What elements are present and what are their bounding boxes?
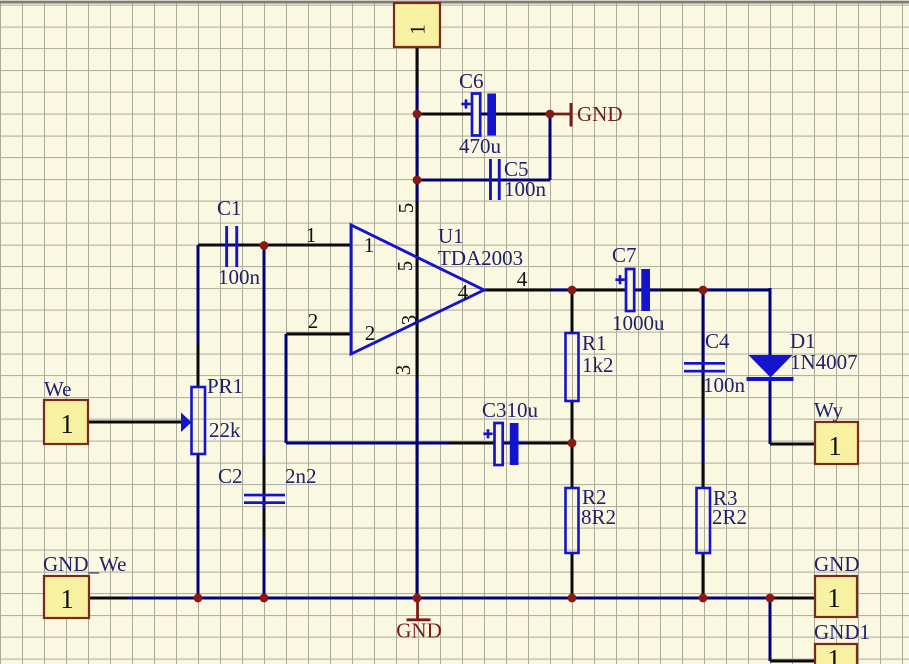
capacitor C3 (electrolytic 10u) xyxy=(495,423,503,465)
svg-text:2: 2 xyxy=(308,309,319,333)
potentiometer PR1 body xyxy=(192,387,206,454)
svg-text:4: 4 xyxy=(517,267,528,291)
svg-text:GND: GND xyxy=(577,102,623,126)
wire C5 gap and right xyxy=(487,179,550,182)
wire U1 pin2 xyxy=(286,333,351,336)
wire D1 cathode down to corner xyxy=(769,381,772,444)
wire C1 right pin to U1 pin1 xyxy=(239,244,351,247)
junction node C4 branch xyxy=(699,286,708,295)
wire R2 top pin xyxy=(571,443,574,488)
svg-text:2n2: 2n2 xyxy=(285,464,317,488)
wire U1 pin5/pin3 column xyxy=(416,202,419,378)
svg-text:C6: C6 xyxy=(459,69,484,93)
svg-text:5: 5 xyxy=(393,261,417,272)
svg-text:R1: R1 xyxy=(582,331,607,355)
power port GND (near C6) xyxy=(550,113,570,116)
svg-text:470u: 470u xyxy=(459,134,502,158)
svg-text:100n: 100n xyxy=(218,265,261,289)
op-amp U1 TDA2003 triangle xyxy=(351,225,484,354)
potentiometer PR1 wiper arrow xyxy=(181,413,192,433)
power port GND (bottom) xyxy=(416,598,419,619)
svg-text:C4: C4 xyxy=(705,329,730,353)
svg-text:C1: C1 xyxy=(217,196,242,220)
wire C5 left xyxy=(417,179,487,182)
svg-text:1: 1 xyxy=(827,583,841,613)
wire feedback to C3 xyxy=(286,442,449,445)
wire ground rail xyxy=(89,597,130,600)
wire C3 right pin to node xyxy=(526,442,572,445)
wire C3 right stub xyxy=(517,442,528,445)
svg-text:1: 1 xyxy=(60,584,74,614)
svg-text:1: 1 xyxy=(364,233,375,257)
svg-text:1k2: 1k2 xyxy=(582,353,614,377)
junction node rail R2 xyxy=(568,594,577,603)
svg-text:4: 4 xyxy=(458,280,469,304)
wire C6 left pin xyxy=(417,113,472,116)
wire C1 gap segment xyxy=(221,244,241,247)
svg-text:GND: GND xyxy=(814,552,860,576)
wire corner to Wy connector xyxy=(770,443,815,446)
wire C4 bottom to R3 top xyxy=(702,378,705,420)
connector GND1 (clipped) xyxy=(815,644,857,664)
svg-text:2R2: 2R2 xyxy=(712,505,747,529)
svg-text:GND_We: GND_We xyxy=(43,552,126,576)
connector GND (right) xyxy=(815,576,857,617)
capacitor C1 plates xyxy=(225,226,228,267)
svg-text:C7: C7 xyxy=(612,243,637,267)
svg-text:Wy: Wy xyxy=(814,398,844,422)
svg-text:8R2: 8R2 xyxy=(581,505,616,529)
wire R1 top pin xyxy=(571,290,574,333)
svg-text:3: 3 xyxy=(397,315,421,326)
capacitor C7 (electrolytic 1000u) xyxy=(626,269,634,311)
svg-text:C310u: C310u xyxy=(482,398,539,422)
svg-text:100n: 100n xyxy=(703,373,746,397)
svg-text:2: 2 xyxy=(365,321,376,345)
svg-text:GND: GND xyxy=(396,619,442,643)
wire C6 right pin xyxy=(496,113,550,116)
junction node V+/C6 xyxy=(413,110,422,119)
wire U1 pin4 output xyxy=(484,289,552,292)
wire V+ from connector P1 down xyxy=(416,47,419,90)
svg-text:22k: 22k xyxy=(209,418,241,442)
wire R3 bottom pin to rail xyxy=(702,553,705,598)
wire C6 gap segment xyxy=(470,113,490,116)
svg-text:1: 1 xyxy=(406,24,430,35)
wire PR1 bottom to rail xyxy=(197,454,200,598)
wire C5 tap segment xyxy=(416,114,419,180)
svg-text:PR1: PR1 xyxy=(207,374,243,398)
connector Wy xyxy=(815,422,858,464)
junction node rail PR1 xyxy=(194,594,203,603)
connector P1 (top power input) xyxy=(394,3,440,47)
resistor R2 xyxy=(566,488,579,553)
svg-text:TDA2003: TDA2003 xyxy=(438,246,523,270)
wire We to PR1 wiper xyxy=(88,421,181,424)
wire R2 bottom pin to rail xyxy=(571,553,574,598)
wire C2 branch down from node xyxy=(263,245,266,470)
capacitor C4 plates xyxy=(684,362,725,365)
diode D1 cathode bar xyxy=(747,377,794,381)
junction node rail GND conn xyxy=(766,594,775,603)
junction node output/R1 xyxy=(568,286,577,295)
svg-text:1: 1 xyxy=(828,431,842,461)
resistor R3 xyxy=(697,488,711,553)
svg-text:1: 1 xyxy=(827,644,841,664)
svg-text:1N4007: 1N4007 xyxy=(790,350,858,374)
wire output to C7 xyxy=(572,289,626,292)
wire C7 right pin xyxy=(660,289,703,292)
wire C2 bottom black xyxy=(263,510,266,540)
junction node C6/GND xyxy=(546,110,555,119)
diode D1 triangle xyxy=(749,355,793,378)
capacitor C6 (electrolytic 470u) xyxy=(472,94,480,136)
junction node C1/C2/pin1 xyxy=(260,241,269,250)
wire C4 gap segment xyxy=(702,350,705,380)
svg-text:We: We xyxy=(44,377,71,401)
junction node C5 tap xyxy=(413,176,422,185)
svg-text:1: 1 xyxy=(306,223,317,247)
junction node rail GND xyxy=(413,594,422,603)
svg-text:GND1: GND1 xyxy=(814,620,870,644)
connector We xyxy=(44,400,88,444)
junction node R1/R2/C3 xyxy=(568,439,577,448)
capacitor C5 plates xyxy=(489,159,492,200)
svg-text:C2: C2 xyxy=(218,464,243,488)
wire C1 left pin to corner xyxy=(198,244,223,247)
capacitor C2 plates xyxy=(244,494,285,497)
svg-text:1000u: 1000u xyxy=(612,311,665,335)
wire C7 right stub xyxy=(648,289,662,292)
wire C2 gap segment xyxy=(263,468,266,512)
svg-text:1: 1 xyxy=(60,409,74,439)
resistor R1 xyxy=(566,333,579,401)
wire C4 branch from output node xyxy=(702,290,705,352)
connector GND_We xyxy=(44,576,89,618)
junction node rail R3 xyxy=(699,594,708,603)
svg-text:100n: 100n xyxy=(504,177,547,201)
wire rail corner down to GND1 xyxy=(769,598,772,661)
wire R1 bottom pin xyxy=(571,401,574,443)
wire C7 gap segment xyxy=(624,289,643,292)
wire feedback down from pin2 xyxy=(285,334,288,443)
wire output node to diode corner xyxy=(703,289,770,292)
junction node rail C2 xyxy=(260,594,269,603)
svg-text:5: 5 xyxy=(394,203,418,214)
wire C2 top black xyxy=(263,455,266,494)
svg-text:U1: U1 xyxy=(438,224,464,248)
wire C3 gap segment xyxy=(493,442,512,445)
wire corner down to PR1 top xyxy=(197,245,200,345)
wire rail to GND connector xyxy=(770,597,815,600)
wire corner down to D1 anode xyxy=(769,288,772,355)
wire pin3 to ground rail xyxy=(416,378,419,598)
svg-text:3: 3 xyxy=(391,365,415,376)
